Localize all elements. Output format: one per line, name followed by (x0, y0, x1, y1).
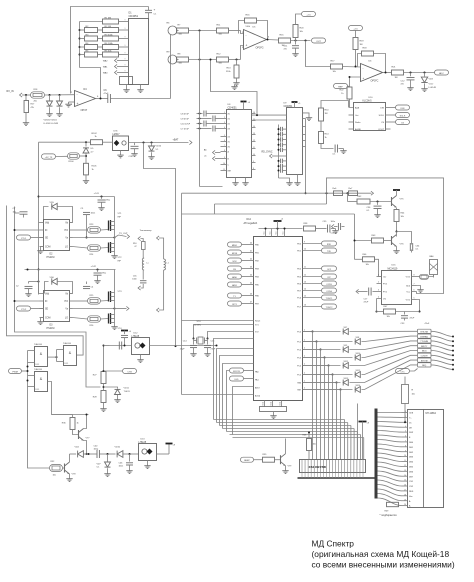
svg-text:10: 10 (404, 455, 406, 457)
svg-text:10: 10 (304, 249, 306, 251)
svg-text:9: 9 (125, 37, 126, 39)
svg-text:X0: X0 (228, 114, 230, 116)
svg-text:Lx: Lx (147, 263, 149, 265)
svg-text:MT-12864: MT-12864 (426, 413, 437, 415)
svg-text:DIN: DIN (380, 108, 384, 110)
svg-text:R2 1M: R2 1M (105, 26, 112, 28)
svg-text:Vcc: Vcc (283, 231, 285, 234)
svg-text:X6: X6 (228, 147, 230, 149)
svg-text:9: 9 (125, 65, 126, 67)
svg-text:+: + (77, 102, 79, 106)
svg-text:* подбирается: * подбирается (380, 513, 398, 517)
svg-text:47uF: 47uF (364, 302, 369, 304)
svg-text:LM317: LM317 (113, 134, 121, 136)
svg-text:WA1: WA1 (103, 66, 108, 69)
svg-text:8: 8 (405, 445, 406, 447)
svg-text:AGnd: AGnd (255, 395, 260, 398)
svg-text:9: 9 (125, 71, 126, 73)
svg-text:R16: R16 (133, 243, 136, 245)
svg-text:9: 9 (125, 59, 126, 61)
svg-text:CD4051: CD4051 (129, 14, 139, 18)
svg-text:18: 18 (404, 494, 406, 496)
svg-text:4: 4 (378, 297, 379, 299)
svg-text:BTN_NB: BTN_NB (420, 332, 428, 334)
svg-text:R105: R105 (92, 166, 98, 168)
svg-text:Reset: Reset (255, 320, 261, 323)
svg-text:CD: CD (383, 277, 387, 279)
svg-text:16: 16 (404, 485, 406, 487)
svg-text:5: 5 (414, 298, 415, 300)
svg-text:Vdd: Vdd (45, 294, 50, 296)
svg-text:11: 11 (223, 169, 225, 171)
svg-text:14: 14 (404, 475, 406, 477)
svg-text:CTL2: CTL2 (21, 309, 27, 311)
svg-text:SD: SD (45, 309, 49, 311)
svg-text:HO: HO (65, 301, 69, 303)
svg-text:3: 3 (378, 290, 379, 292)
svg-text:40: 40 (250, 243, 252, 245)
svg-text:VD100 VD101: VD100 VD101 (44, 120, 58, 122)
svg-text:WA2: WA2 (103, 60, 108, 63)
svg-text:BEEP: BEEP (244, 460, 250, 462)
svg-text:IN: IN (45, 230, 48, 232)
svg-text:15: 15 (404, 480, 406, 482)
svg-text:HO: HO (65, 230, 69, 232)
svg-text:1M: 1M (395, 77, 398, 79)
svg-text:PS21M: PS21M (47, 256, 55, 259)
svg-text:1000: 1000 (132, 279, 136, 281)
svg-text:MISO: MISO (232, 245, 238, 247)
svg-text:47uF: 47uF (410, 318, 415, 320)
svg-text:VD10: VD10 (356, 353, 361, 355)
svg-text:9: 9 (125, 53, 126, 55)
svg-text:LED: LED (235, 379, 239, 381)
svg-text:R102: R102 (92, 133, 98, 135)
svg-text:16 MHz: 16 MHz (194, 325, 202, 327)
svg-text:5: 5 (224, 135, 225, 137)
svg-text:D1.1: D1.1 (65, 363, 69, 365)
svg-text:OP07G: OP07G (256, 46, 264, 49)
svg-text:ADC: ADC (439, 72, 444, 75)
svg-text:16: 16 (304, 305, 306, 307)
svg-text:LL4148: LL4148 (429, 87, 437, 89)
svg-text:+C42: +C42 (91, 266, 97, 268)
svg-text:Vdd: Vdd (45, 223, 50, 225)
svg-text:47: 47 (134, 246, 136, 248)
svg-text:D1.1: D1.1 (36, 364, 40, 366)
svg-text:46: 46 (250, 294, 252, 296)
svg-text:13: 13 (304, 282, 306, 284)
svg-text:CTC: CTC (400, 371, 405, 373)
svg-text:CTB: CTB (127, 371, 132, 373)
svg-text:TXD: TXD (327, 251, 332, 253)
svg-text:MOSI: MOSI (232, 253, 238, 255)
svg-text:VD13: VD13 (344, 378, 349, 380)
svg-text:9: 9 (125, 45, 126, 47)
svg-text:D14: D14 (247, 218, 252, 221)
svg-text:74HC00: 74HC00 (34, 344, 43, 346)
svg-text:OC1A: OC1A (326, 290, 332, 293)
svg-text:C9 47uF: C9 47uF (181, 119, 190, 121)
svg-text:Vcc: Vcc (264, 231, 266, 234)
svg-text:10: 10 (223, 163, 225, 165)
svg-text:47: 47 (250, 302, 252, 304)
svg-text:C7 47uF: C7 47uF (181, 129, 190, 131)
svg-text:Vcc: Vcc (276, 231, 278, 234)
svg-text:1: 1 (224, 112, 225, 114)
svg-text:C10 47uF: C10 47uF (181, 124, 191, 126)
svg-text:со всеми внесенными изменениям: со всеми внесенными изменениями) (312, 560, 455, 570)
svg-text:12: 12 (304, 275, 306, 277)
svg-text:LO: LO (65, 247, 68, 249)
svg-text:VD11: VD11 (344, 361, 349, 363)
svg-text:+: + (154, 8, 156, 12)
svg-text:D1.1: D1.1 (36, 389, 40, 391)
svg-text:2: 2 (224, 117, 225, 119)
svg-text:COUT: COUT (378, 129, 385, 131)
svg-text:+: + (363, 76, 365, 80)
svg-text:6: 6 (224, 140, 225, 142)
svg-text:19: 19 (404, 499, 406, 501)
svg-text:(оригинальная схема МД Кощей-1: (оригинальная схема МД Кощей-18 (312, 549, 450, 559)
svg-text:CD4051: CD4051 (228, 107, 238, 110)
svg-text:OP37: OP37 (81, 108, 88, 112)
svg-text:SD: SD (45, 238, 49, 240)
svg-text:COM: COM (45, 318, 50, 320)
svg-text:X1: X1 (228, 119, 230, 121)
svg-text:CD4051: CD4051 (284, 105, 293, 108)
svg-text:45: 45 (250, 283, 252, 285)
svg-text:Gnd: Gnd (271, 402, 273, 405)
svg-text:WA0: WA0 (103, 72, 108, 75)
svg-text:AGND: AGND (355, 128, 362, 131)
svg-text:VD8: VD8 (356, 337, 360, 339)
svg-text:BTEHM1: BTEHM1 (420, 336, 428, 338)
svg-text:IN: IN (45, 301, 48, 303)
svg-text:VD11: VD11 (124, 388, 130, 390)
svg-text:Gnd: Gnd (263, 402, 265, 405)
svg-text:11: 11 (404, 460, 406, 462)
svg-text:CTL1: CTL1 (21, 238, 27, 240)
svg-text:1M: 1M (360, 44, 363, 46)
svg-text:4: 4 (224, 127, 225, 129)
svg-text:KLC06-5: KLC06-5 (363, 101, 373, 103)
svg-text:3: 3 (224, 122, 225, 124)
svg-text:PS21M: PS21M (47, 327, 55, 330)
svg-text:Vcc: Vcc (270, 231, 272, 234)
svg-text:PWM: PWM (12, 371, 18, 373)
svg-text:9: 9 (405, 450, 406, 452)
svg-text:11: 11 (304, 267, 306, 269)
svg-text:SCLK: SCLK (400, 115, 406, 117)
svg-text:VD9: VD9 (344, 345, 348, 347)
svg-text:12: 12 (404, 465, 406, 467)
svg-text:9: 9 (125, 20, 126, 22)
svg-text:OC1B: OC1B (326, 284, 332, 286)
svg-text:VO2: VO2 (406, 277, 411, 279)
svg-text:VCO: VCO (429, 84, 434, 86)
svg-text:SCLK: SCLK (379, 115, 385, 117)
svg-text:RXD: RXD (327, 244, 332, 246)
svg-text:A&B: A&B (355, 107, 360, 110)
svg-text:BTKYM: BTKYM (421, 360, 428, 362)
svg-text:BKKTY: BKKTY (421, 346, 428, 348)
svg-text:МД Спектр: МД Спектр (312, 539, 355, 549)
svg-text:REF: REF (338, 86, 343, 88)
svg-text:44: 44 (250, 275, 252, 277)
svg-text:CS: CS (401, 122, 405, 124)
svg-text:OUT: OUT (316, 41, 321, 43)
svg-text:1M: 1M (325, 113, 328, 115)
svg-text:-: - (363, 66, 364, 70)
svg-text:6: 6 (414, 290, 415, 292)
svg-text:VD10: VD10 (115, 447, 121, 449)
svg-text:TL431: TL431 (124, 391, 131, 393)
svg-text:47uF: 47uF (104, 93, 110, 95)
svg-text:DIN: DIN (401, 108, 405, 110)
svg-text:+: + (246, 44, 248, 48)
svg-text:LL4148 LL4148: LL4148 LL4148 (44, 123, 59, 125)
svg-text:17: 17 (404, 490, 406, 492)
svg-text:VD16: VD16 (156, 146, 162, 148)
svg-text:14: 14 (304, 289, 306, 291)
svg-text:Gnd: Gnd (280, 402, 282, 405)
svg-text:R4 100k: R4 100k (105, 43, 114, 45)
svg-text:VO1: VO1 (406, 300, 411, 302)
svg-text:RX_IN: RX_IN (7, 90, 14, 93)
svg-text:BKQ: BKQ (422, 365, 427, 367)
svg-text:Radio: Radio (355, 122, 361, 124)
svg-text:R3 300k: R3 300k (105, 34, 114, 36)
svg-text:X2: X2 (228, 124, 230, 126)
svg-text:8: 8 (414, 275, 415, 277)
svg-text:TOSC2: TOSC2 (326, 307, 334, 309)
svg-text:R5 30k: R5 30k (105, 50, 113, 52)
svg-text:VD14: VD14 (356, 385, 361, 387)
svg-text:74HC00: 74HC00 (34, 369, 43, 371)
svg-text:R104: R104 (69, 161, 75, 163)
svg-text:+C41: +C41 (94, 193, 100, 195)
svg-text:X3: X3 (228, 129, 230, 131)
svg-text:42: 42 (250, 259, 252, 261)
svg-text:L78L05: L78L05 (139, 442, 147, 444)
svg-text:13: 13 (404, 470, 406, 472)
svg-text:47uF: 47uF (425, 323, 430, 325)
svg-text:9: 9 (304, 242, 305, 244)
svg-text:9: 9 (125, 28, 126, 30)
svg-text:4: 4 (405, 426, 406, 428)
svg-text:7: 7 (405, 441, 406, 443)
svg-text:-: - (77, 92, 78, 96)
svg-text:LCSLTE: LCSLTE (421, 356, 429, 358)
svg-text:Out: Out (355, 114, 359, 117)
svg-text:9: 9 (224, 157, 225, 159)
svg-text:TOSC1: TOSC1 (326, 298, 334, 300)
svg-text:X4: X4 (228, 137, 230, 139)
svg-text:MCX19: MCX19 (233, 371, 241, 373)
svg-text:R/W: R/W (409, 432, 413, 434)
svg-text:ATmega32A: ATmega32A (244, 222, 258, 225)
svg-text:LO: LO (65, 318, 68, 320)
svg-text:15: 15 (304, 296, 306, 298)
svg-text:ARef: ARef (255, 387, 260, 390)
svg-text:MC34119: MC34119 (388, 269, 399, 271)
svg-text:L78L05: L78L05 (132, 336, 140, 338)
svg-text:7: 7 (414, 284, 415, 286)
svg-text:7: 7 (224, 145, 225, 147)
svg-text:C8 47uF: C8 47uF (181, 114, 190, 116)
svg-text:74HC00: 74HC00 (63, 343, 72, 345)
svg-text:RES: RES (409, 491, 414, 493)
svg-text:1: 1 (378, 275, 379, 277)
svg-text:5: 5 (405, 431, 406, 433)
svg-text:TTLKHM: TTLKHM (420, 341, 428, 343)
svg-text:VD7: VD7 (344, 327, 348, 329)
svg-text:6: 6 (405, 436, 406, 438)
svg-text:COM: COM (45, 247, 50, 249)
svg-text:VD12: VD12 (356, 370, 361, 372)
svg-text:RD_SYNC: RD_SYNC (262, 152, 273, 154)
svg-text:43: 43 (250, 267, 252, 269)
svg-text:+BAT: +BAT (173, 139, 179, 142)
svg-text:27pF: 27pF (180, 349, 185, 351)
svg-text:2: 2 (378, 282, 379, 284)
svg-text:20: 20 (404, 504, 406, 506)
svg-text:8: 8 (224, 150, 225, 152)
svg-text:GnB: GnB (409, 413, 414, 415)
svg-text:M101: M101 (422, 351, 427, 353)
svg-text:R1 3M: R1 3M (105, 17, 112, 19)
svg-text:-: - (246, 33, 247, 37)
svg-text:+5V_TX: +5V_TX (45, 157, 53, 159)
svg-text:OP07C: OP07C (371, 79, 379, 82)
svg-text:X5: X5 (228, 142, 230, 144)
svg-text:XS1 KEYBD: XS1 KEYBD (309, 465, 327, 469)
svg-text:41: 41 (250, 251, 252, 253)
svg-text:SCK: SCK (232, 261, 237, 263)
svg-text:Тепловизор: Тепловизор (140, 230, 153, 232)
